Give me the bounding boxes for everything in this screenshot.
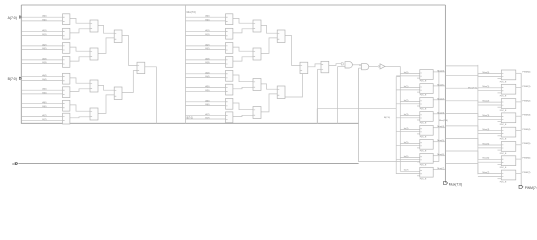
svg-text:B(6): B(6) [205,104,209,106]
svg-text:A(1): A(1) [205,29,209,32]
svg-text:FDC_E: FDC_E [500,167,507,169]
svg-text:In(3): In(3) [404,114,409,116]
svg-text:clk: clk [12,162,16,166]
svg-text:In(1): In(1) [404,86,409,88]
svg-text:FDC_E: FDC_E [500,139,507,141]
svg-text:A(7): A(7) [205,113,209,116]
svg-text:FDC_E: FDC_E [500,81,507,83]
svg-text:Mux(7): Mux(7) [437,168,444,170]
svg-text:B(6): B(6) [42,106,46,108]
svg-text:Mux(3): Mux(3) [482,115,489,117]
svg-text:PWM(6): PWM(6) [522,158,530,160]
svg-text:FDC_E: FDC_E [500,96,507,98]
svg-text:Mux(7:0): Mux(7:0) [187,12,196,14]
svg-text:A(0): A(0) [42,15,46,18]
svg-text:A(7): A(7) [42,114,46,117]
svg-text:B(7): B(7) [42,119,46,121]
svg-text:B(4): B(4) [42,79,46,81]
svg-text:B(0): B(0) [205,19,209,21]
svg-text:Mux(7:0): Mux(7:0) [439,120,448,122]
svg-text:Mux(1): Mux(1) [437,84,444,86]
svg-text:PWM(4): PWM(4) [522,129,530,131]
svg-text:B(3): B(3) [205,62,209,64]
svg-text:FDC_E: FDC_E [420,137,427,139]
svg-text:A(1): A(1) [42,29,46,32]
svg-text:In(4): In(4) [404,128,409,130]
svg-text:Mux(5): Mux(5) [437,140,444,142]
svg-text:FDC_E: FDC_E [500,110,507,112]
svg-text:In(7): In(7) [404,170,409,172]
svg-text:A(4): A(4) [42,74,46,77]
svg-text:B(2): B(2) [205,48,209,50]
svg-text:A(5): A(5) [42,88,46,91]
svg-text:B(4): B(4) [205,76,209,78]
svg-text:B(0): B(0) [42,19,46,21]
svg-text:FDC_E: FDC_E [500,124,507,126]
svg-text:Mux(0): Mux(0) [482,72,489,74]
svg-text:B(5): B(5) [205,90,209,92]
svg-text:PWM(1): PWM(1) [522,86,530,88]
svg-text:B(7:0): B(7:0) [187,118,193,120]
svg-text:B(3): B(3) [42,62,46,64]
svg-text:Mux(2): Mux(2) [437,98,444,100]
svg-text:A(6): A(6) [205,99,209,102]
svg-text:FDC_E: FDC_E [500,153,507,155]
svg-text:PWM(7): PWM(7) [522,172,530,174]
svg-text:A(7:0): A(7:0) [8,16,17,20]
svg-text:FDC_E: FDC_E [420,95,427,97]
svg-text:B(2): B(2) [42,48,46,50]
svg-text:B(7:0): B(7:0) [8,77,17,81]
svg-text:Mux(7): Mux(7) [482,172,489,174]
svg-text:PWM(2): PWM(2) [522,100,530,102]
svg-text:PWM(0): PWM(0) [522,72,530,74]
svg-text:Mux(7:0): Mux(7:0) [468,88,477,90]
svg-text:FDC_E: FDC_E [420,109,427,111]
svg-text:FDC_E: FDC_E [420,81,427,83]
svg-text:Mux(4): Mux(4) [437,126,444,128]
svg-text:Mux(6): Mux(6) [482,158,489,160]
svg-text:Mux(6): Mux(6) [437,154,444,156]
svg-text:B(5): B(5) [42,92,46,94]
svg-text:A(2): A(2) [205,43,209,46]
svg-text:In(0): In(0) [404,72,409,74]
svg-text:A(3): A(3) [205,57,209,60]
svg-text:PWM(3): PWM(3) [522,115,530,117]
svg-text:In(5): In(5) [404,142,409,144]
svg-text:PWM(5): PWM(5) [522,143,530,145]
svg-text:B(1): B(1) [205,34,209,36]
svg-text:Mux(0): Mux(0) [437,70,444,72]
svg-text:A(5): A(5) [205,85,209,88]
svg-text:A(6): A(6) [42,101,46,104]
svg-text:Mux(2): Mux(2) [482,101,489,103]
svg-text:A(0): A(0) [205,15,209,18]
svg-text:B(7): B(7) [205,118,209,120]
svg-text:A(2): A(2) [42,43,46,46]
svg-text:B(7:0): B(7:0) [384,117,390,119]
svg-text:FDC_E: FDC_E [420,178,427,180]
svg-text:Mux(3): Mux(3) [437,112,444,114]
svg-text:FDC_E: FDC_E [420,123,427,125]
svg-text:FDC_E: FDC_E [500,181,507,183]
svg-text:Mux(5): Mux(5) [482,143,489,145]
svg-text:A(4): A(4) [205,71,209,74]
svg-text:B(1): B(1) [42,34,46,36]
svg-text:A(3): A(3) [42,57,46,60]
svg-text:FDC_E: FDC_E [420,165,427,167]
svg-text:Mux(4): Mux(4) [482,129,489,131]
svg-text:Mux(7:0): Mux(7:0) [449,182,462,186]
svg-text:In(2): In(2) [404,100,409,102]
svg-text:PWM(7:0): PWM(7:0) [525,186,537,190]
svg-text:Mux(1): Mux(1) [482,86,489,88]
svg-text:In(6): In(6) [404,156,409,158]
svg-text:FDC_E: FDC_E [420,151,427,153]
